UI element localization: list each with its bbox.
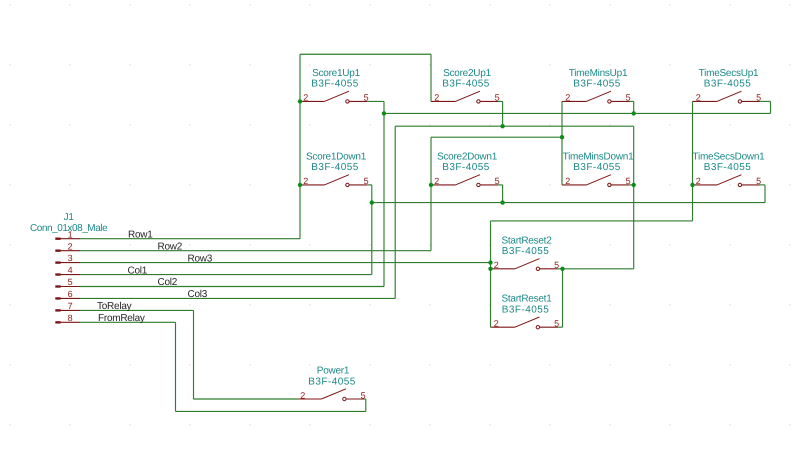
svg-text:B3F-4055: B3F-4055 — [704, 79, 752, 90]
junction bus202 x=371.8 — [370, 200, 374, 204]
J1 pin 5 — [55, 285, 60, 287]
wire Col1 — [80, 274, 372, 276]
svg-text:TimeMinsDown1: TimeMinsDown1 — [563, 151, 635, 162]
wire vertical x=384 (Score1Up1 right to Col2) — [383, 101, 385, 286]
junction Score2Down1 left pin — [429, 183, 433, 187]
switch SW TimeSecsUp1 (TimeSecsUp1 B3F-4055) — [693, 68, 762, 103]
svg-text:2: 2 — [434, 93, 439, 103]
svg-text:Score1Down1: Score1Down1 — [306, 151, 367, 162]
junction bus113 x=384 — [382, 111, 386, 115]
wire vertical x=562 (TimeMinsUp1 to TimeMinsDown1 left pins) — [561, 101, 563, 184]
J1 pin 2 — [55, 249, 60, 251]
wire bus y=221 — [491, 220, 693, 222]
wire vertical x=371.8 (Score1Down1 right to Col1) — [371, 185, 373, 275]
junction StartReset2 left pin — [488, 267, 492, 271]
svg-text:J1: J1 — [64, 212, 75, 223]
wire TimeMinsUp1 right pin stub — [629, 100, 634, 102]
svg-text:1: 1 — [68, 229, 73, 239]
switch body — [562, 184, 586, 186]
switch SW TimeSecsDown1 (TimeSecsDown1 B3F-4055) — [693, 151, 766, 186]
wire Score1Down1 right pin stub — [367, 184, 372, 186]
wire bus y=126 — [395, 125, 634, 127]
wire vertical x=633.7 (bus y=126 to StartReset2 right) — [633, 126, 635, 269]
J1 pin 8 — [55, 321, 60, 323]
junction bus202 x=502.6 — [500, 200, 504, 204]
wire vertical x=300 (Row1 to Score1Up/Down left pins) — [299, 54, 301, 238]
switch SW Score1Up1 (Score1Up1 B3F-4055) — [300, 68, 369, 103]
switch body — [491, 326, 515, 328]
wire Col2 — [80, 286, 384, 288]
wire top bus y=54 — [300, 53, 431, 55]
svg-text:7: 7 — [68, 301, 73, 311]
wire vertical x=633.7 upper — [633, 101, 635, 113]
svg-text:StartReset1: StartReset1 — [501, 294, 552, 305]
svg-text:Score2Up1: Score2Up1 — [443, 68, 491, 79]
svg-text:2: 2 — [565, 176, 570, 186]
wire StartReset1 right pin stub — [558, 326, 563, 328]
switch SW StartReset2 (StartReset2 B3F-4055) — [491, 235, 560, 270]
switch SW Score2Up1 (Score2Up1 B3F-4055) — [431, 68, 500, 103]
switch body — [431, 100, 455, 102]
svg-text:Power1: Power1 — [317, 366, 350, 377]
junction bus126 x=502.6 — [500, 124, 504, 128]
svg-text:Score1Up1: Score1Up1 — [312, 68, 360, 79]
switch body — [491, 268, 515, 270]
svg-text:5: 5 — [68, 277, 73, 287]
J1 pin 4 — [55, 273, 60, 275]
junction TimeMinsDown1 right pin — [632, 183, 636, 187]
junction bus137 x=562 — [560, 135, 564, 139]
wire FromRelay vertical x=175.5 — [175, 322, 177, 411]
wire vertical x=431 upper (to Score2Up1 left pin) — [430, 54, 432, 101]
J1 pin 1 — [55, 238, 60, 240]
wire Row3 — [80, 262, 491, 264]
wire Power1 right pin stub — [364, 398, 366, 400]
wire vertical x=431 lower (Row2 to Score2Down1 left pin) — [430, 137, 432, 250]
svg-text:2: 2 — [434, 176, 439, 186]
svg-text:B3F-4055: B3F-4055 — [573, 162, 621, 173]
svg-text:Col1: Col1 — [128, 265, 148, 276]
svg-text:B3F-4055: B3F-4055 — [311, 79, 359, 90]
wire StartReset2 right pin to x=633.7 — [558, 268, 634, 270]
svg-text:6: 6 — [68, 289, 73, 299]
connector J1 Conn_01x08_Male — [30, 212, 108, 323]
svg-text:TimeSecsUp1: TimeSecsUp1 — [699, 68, 759, 79]
svg-text:2: 2 — [300, 390, 305, 400]
wire ToRelay horizontal — [80, 309, 194, 311]
svg-text:2: 2 — [303, 176, 308, 186]
junction TimeSecsDown1 left pin — [690, 183, 694, 187]
wire TimeSecsUp1 right pin stub — [760, 100, 771, 102]
wire vertical x=770.5 — [770, 101, 772, 113]
wire FromRelay horizontal — [80, 321, 176, 323]
wire vertical x=765 — [764, 185, 766, 203]
wire ToRelay to Power1 left pin — [194, 398, 298, 400]
wire ToRelay vertical x=193.5 — [193, 310, 195, 399]
switch SW TimeMinsUp1 (TimeMinsUp1 B3F-4055) — [562, 68, 631, 103]
wire vertical x=502.6 upper — [502, 101, 504, 126]
junction StartReset2 right pin — [560, 267, 564, 271]
svg-text:2: 2 — [494, 260, 499, 270]
switch body — [562, 100, 586, 102]
wire TimeMinsDown1 right pin stub — [629, 184, 634, 186]
switch SW Power1 (Power1 B3F-4055) — [297, 366, 366, 401]
switch body — [300, 184, 324, 186]
svg-text:2: 2 — [696, 176, 701, 186]
svg-text:2: 2 — [494, 319, 499, 329]
svg-text:StartReset2: StartReset2 — [501, 235, 552, 246]
wire bus y=202.6 — [372, 202, 765, 204]
svg-text:B3F-4055: B3F-4055 — [311, 162, 359, 173]
svg-text:2: 2 — [303, 93, 308, 103]
svg-text:FromRelay: FromRelay — [98, 313, 145, 324]
switch body — [693, 184, 717, 186]
switch body — [431, 184, 455, 186]
svg-text:ToRelay: ToRelay — [97, 301, 132, 312]
wire Score1Up1 right pin stub — [367, 100, 384, 102]
svg-text:2: 2 — [696, 93, 701, 103]
svg-text:3: 3 — [68, 253, 73, 263]
wire FromRelay bottom y=411.4 — [176, 410, 366, 412]
wire Row1 — [80, 238, 300, 240]
J1 pin 6 — [55, 297, 60, 299]
wire vertical x=502.6 lower — [502, 185, 504, 203]
switch body — [300, 100, 324, 102]
junction Score1Down1 left pin — [298, 183, 302, 187]
svg-text:B3F-4055: B3F-4055 — [704, 162, 752, 173]
svg-text:2: 2 — [565, 93, 570, 103]
wire bus y=137 — [431, 136, 562, 138]
svg-text:B3F-4055: B3F-4055 — [442, 79, 490, 90]
svg-text:TimeSecsDown1: TimeSecsDown1 — [693, 151, 766, 162]
switch body — [297, 398, 321, 400]
wire Score2Down1 right pin stub — [498, 184, 503, 186]
J1 pin 3 — [55, 261, 60, 263]
wire vertical x=692.5 (TimeSecsUp1/Down left pins) — [692, 101, 694, 220]
svg-text:B3F-4055: B3F-4055 — [308, 376, 356, 387]
svg-text:B3F-4055: B3F-4055 — [502, 246, 550, 257]
switch SW Score2Down1 (Score2Down1 B3F-4055) — [431, 151, 500, 186]
wire Score2Up1 right pin stub — [498, 100, 503, 102]
wire bus y=113 — [384, 112, 771, 114]
svg-text:Row3: Row3 — [188, 253, 213, 264]
svg-text:4: 4 — [68, 265, 73, 275]
svg-text:Row1: Row1 — [128, 229, 153, 240]
svg-text:8: 8 — [68, 313, 73, 323]
svg-text:B3F-4055: B3F-4055 — [573, 79, 621, 90]
switch SW Score1Down1 (Score1Down1 B3F-4055) — [300, 151, 369, 186]
J1 pin 7 — [55, 309, 60, 311]
switch body — [693, 100, 717, 102]
wire vertical x=365.8 to Power1 right pin — [365, 399, 367, 411]
svg-text:Score2Down1: Score2Down1 — [437, 151, 498, 162]
wire Col3 — [80, 297, 395, 299]
switch SW TimeMinsDown1 (TimeMinsDown1 B3F-4055) — [562, 151, 634, 186]
svg-text:Row2: Row2 — [158, 241, 183, 252]
switch SW StartReset1 (StartReset1 B3F-4055) — [491, 294, 560, 329]
svg-text:B3F-4055: B3F-4055 — [502, 305, 550, 316]
wire TimeSecsDown1 right pin stub — [760, 184, 766, 186]
wire Row2 — [80, 250, 431, 252]
svg-text:2: 2 — [68, 241, 73, 251]
wire vertical x=396 (bus y=126 to Col3) — [394, 126, 396, 298]
svg-text:TimeMinsUp1: TimeMinsUp1 — [569, 68, 628, 79]
svg-text:Col2: Col2 — [158, 277, 178, 288]
junction Row3 at x=490.5 — [488, 260, 492, 264]
wire vertical x=562.5 (StartReset2 right to StartReset1 right) — [562, 269, 564, 327]
junction bus113 x=633.7 — [632, 111, 636, 115]
wire vertical x=490.5 (StartReset left pins) — [490, 221, 492, 327]
svg-text:B3F-4055: B3F-4055 — [442, 162, 490, 173]
svg-text:Col3: Col3 — [188, 289, 208, 300]
junction Score1Up1 left pin — [298, 99, 302, 103]
